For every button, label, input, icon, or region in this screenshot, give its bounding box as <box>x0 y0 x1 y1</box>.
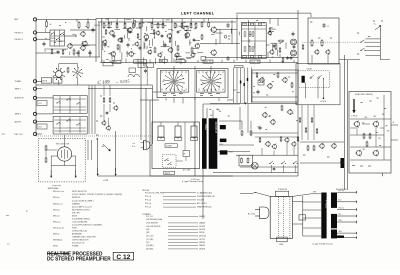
svg-text:(1) (a) 1,TAPE 2 2,(1 to 2: (1) (a) 1,TAPE 2 2,(1 to 2) <box>72 205 92 208</box>
svg-text:ATTENUATE: ATTENUATE <box>72 233 83 236</box>
svg-text:SW6 a,b,c: SW6 a,b,c <box>53 221 61 223</box>
svg-text:MONITOR: MONITOR <box>72 197 81 199</box>
svg-text:PT3 a,b: PT3 a,b <box>145 200 151 202</box>
svg-text:C 109: C 109 <box>97 80 110 86</box>
svg-text:(1,2,3) 1,SOURCE 2,TAPE 1: (1,2,3) 1,SOURCE 2,TAPE 1 <box>72 199 94 202</box>
svg-text:DC BALANCE (NO): DC BALANCE (NO) <box>197 191 212 194</box>
svg-text:SW5 a,b: SW5 a,b <box>53 215 60 217</box>
svg-text:2SB-5: 2SB-5 <box>229 152 233 154</box>
svg-text:PHONO 2: PHONO 2 <box>15 32 24 34</box>
svg-text:TAPE 1: TAPE 1 <box>15 88 21 91</box>
svg-text:CH.R 2N5087H: CH.R 2N5087H <box>146 223 159 225</box>
svg-text:C121: C121 <box>251 62 255 64</box>
svg-text:C88: C88 <box>177 61 180 63</box>
svg-text:SP: SP <box>184 154 186 156</box>
svg-text:PT1 (PL1,PL2,PN1,PN2): PT1 (PL1,PL2,PN1,PN2) <box>145 192 164 194</box>
svg-text:QT4: QT4 <box>146 242 149 244</box>
svg-text:2SC732: 2SC732 <box>199 239 205 241</box>
svg-text:PHONO 1: PHONO 1 <box>15 39 24 41</box>
svg-text:C 12: C 12 <box>116 254 130 261</box>
svg-text:L ch: L ch <box>132 143 135 145</box>
svg-text:2SD(8): 2SD(8) <box>199 232 205 234</box>
svg-text:SW3 a,b,c,d: SW3 a,b,c,d <box>53 203 63 205</box>
svg-text:2SD-4: 2SD-4 <box>219 144 223 146</box>
svg-text:THIS CONNECTOR: THIS CONNECTOR <box>56 143 70 145</box>
svg-text:B52: B52 <box>160 61 163 63</box>
svg-text:YEL (C): YEL (C) <box>338 207 344 209</box>
svg-text:2SC1166: 2SC1166 <box>199 236 206 238</box>
svg-text:AC 125V: AC 125V <box>248 213 256 216</box>
svg-text:a PWB: a PWB <box>103 180 108 182</box>
svg-text:DUBBING: DUBBING <box>72 203 80 205</box>
svg-text:CURRENT LIMIT 1.5GHz OFF): CURRENT LIMIT 1.5GHz OFF) <box>72 237 96 239</box>
svg-text:ORN: ORN <box>338 220 341 222</box>
svg-text:POWER: POWER <box>72 246 79 248</box>
svg-text:PT2 a,b: PT2 a,b <box>145 196 151 198</box>
svg-text:SW10: SW10 <box>53 246 58 248</box>
svg-text:QT7 (BD): QT7 (BD) <box>146 239 154 241</box>
svg-text:PT4 a,b: PT4 a,b <box>145 203 151 205</box>
svg-text:2SA608: 2SA608 <box>199 222 205 225</box>
svg-text:2SB536: 2SB536 <box>199 242 205 244</box>
svg-text:HEADPHONE (JK): HEADPHONE (JK) <box>197 206 212 209</box>
svg-text:CH3 2N5087H (2mA): CH3 2N5087H (2mA) <box>146 218 162 221</box>
svg-text:DC STEREO PREAMPLIFIER: DC STEREO PREAMPLIFIER <box>47 256 111 262</box>
svg-text:SW9 (Ma,b): SW9 (Ma,b) <box>53 240 63 242</box>
svg-text:R ch: R ch <box>132 146 135 148</box>
svg-text:REC OUT: REC OUT <box>15 134 24 136</box>
svg-text:DIAL(D): DIAL(D) <box>199 215 206 218</box>
svg-text:C9: C9 <box>327 26 329 28</box>
svg-text:2SB54: 2SB54 <box>204 124 206 130</box>
svg-text:SW2 a,b: SW2 a,b <box>53 197 60 199</box>
svg-text:SW8 a,b: SW8 a,b <box>53 234 60 236</box>
svg-text:(0,2) 2,A 1,2 ON: (0,2) 2,A 1,2 ON <box>72 242 85 245</box>
svg-text:(1,2,3) 1,PHONO 1 2,PHONO 2: (1,2,3) 1,PHONO 1 2,PHONO 2 (PHONO 2) 4,… <box>72 193 122 196</box>
svg-text:SWITCHES: SWITCHES <box>48 188 60 190</box>
svg-text:INPUT SELECTOR: INPUT SELECTOR <box>72 191 87 193</box>
svg-text:TUNER: TUNER <box>15 81 22 83</box>
svg-text:TAPE 2: TAPE 2 <box>15 113 21 116</box>
svg-text:2SD678: 2SD678 <box>199 249 205 251</box>
svg-text:LEFT CHANNEL: LEFT CHANNEL <box>181 12 215 16</box>
svg-text:WHT: WHT <box>313 192 316 194</box>
svg-text:(1,2,3) (OFF) (FLAT 30/50 L: (1,2,3) (OFF) (FLAT 30/50 LOUDNESS) <box>72 223 102 226</box>
svg-text:C201: C201 <box>38 103 42 105</box>
svg-text:SW1 a,b,c,d,e: SW1 a,b,c,d,e <box>53 191 64 193</box>
svg-text:(ON OFF): (ON OFF) <box>72 212 80 214</box>
svg-text:(L type P-4065 Circuit): (L type P-4065 Circuit) <box>313 242 333 245</box>
svg-text:SW4 a,b: SW4 a,b <box>53 209 60 211</box>
svg-text:MODE: MODE <box>72 215 78 217</box>
svg-text:RECORDING OUTPUT: RECORDING OUTPUT <box>72 209 90 211</box>
svg-text:Q(9) (BD): Q(9) (BD) <box>146 245 154 247</box>
svg-text:2SA618: 2SA618 <box>199 244 205 247</box>
svg-text:RED GRN WHT: RED GRN WHT <box>336 189 347 191</box>
svg-text:→3Bk: →3Bk <box>100 146 105 148</box>
svg-text:C202: C202 <box>38 127 42 129</box>
svg-text:2SC632: 2SC632 <box>199 226 205 228</box>
svg-text:CL1, CL2: CL1, CL2 <box>146 216 153 218</box>
svg-text:(1,2) (STEREO MONO): (1,2) (STEREO MONO) <box>72 218 90 220</box>
svg-text:VOLUME: VOLUME <box>197 200 205 202</box>
svg-text:PHONO MOTHER (JK): PHONO MOTHER (JK) <box>197 196 215 198</box>
svg-text:SW7 (a,b,c,d): SW7 (a,b,c,d) <box>53 227 64 229</box>
svg-text:QR2: QR2 <box>146 232 150 234</box>
svg-text:MONITOR: MONITOR <box>15 98 25 100</box>
svg-text:YEL: YEL <box>338 214 341 216</box>
svg-text:PT5 a,b: PT5 a,b <box>145 207 151 209</box>
svg-text:REMOTE: REMOTE <box>165 173 171 175</box>
svg-text:B+: B+ <box>374 24 376 26</box>
svg-text:ADPTR: ADPTR <box>15 120 22 123</box>
svg-text:QT3, QT5: QT3, QT5 <box>146 236 154 238</box>
svg-text:P 4065: P 4065 <box>325 200 329 209</box>
svg-text:ATT. FRONT: ATT. FRONT <box>197 202 207 205</box>
svg-text:(HEAT SINK CHASSIS): (HEAT SINK CHASSIS) <box>355 93 373 96</box>
svg-text:(LOW Temp): (LOW Temp) <box>191 179 200 181</box>
svg-text:Q10 (BD): Q10 (BD) <box>146 249 154 251</box>
svg-text:2SC536: 2SC536 <box>199 229 205 231</box>
svg-text:BLU: BLU <box>338 200 341 202</box>
svg-text:2SD388-05: 2SD388-05 <box>214 122 216 134</box>
svg-text:± type only: ± type only <box>52 184 61 187</box>
svg-text:GRN: GRN <box>338 231 341 233</box>
svg-text:QR1: QR1 <box>146 229 150 231</box>
svg-text:POWER SW: POWER SW <box>278 189 288 191</box>
svg-text:R110: R110 <box>113 62 117 64</box>
svg-text:LOUD. EQUALIZER: LOUD. EQUALIZER <box>72 220 88 223</box>
svg-text:(OTH) (LOW) (1.4k): (OTH) (LOW) (1.4k) <box>72 231 87 233</box>
svg-text:CH5,CH6 2N5,2N5: CH5,CH6 2N5,2N5 <box>146 226 160 228</box>
svg-text:to PW-B: to PW-B <box>351 115 358 118</box>
svg-text:OUTPUT SELECTOR: OUTPUT SELECTOR <box>72 240 89 242</box>
